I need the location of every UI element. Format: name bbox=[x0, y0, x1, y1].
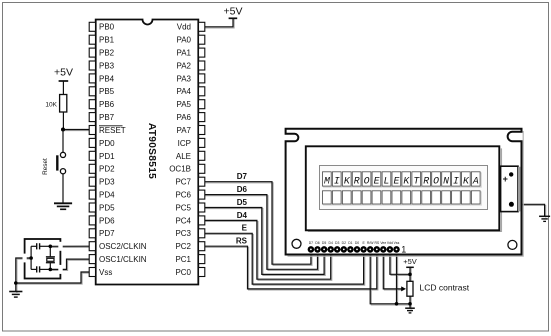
node backlight cathode dot bbox=[509, 202, 514, 207]
svg-text:Reset: Reset bbox=[42, 158, 49, 175]
svg-text:PD6: PD6 bbox=[99, 216, 115, 225]
svg-text:PC3: PC3 bbox=[175, 229, 191, 238]
pin 5 PB4 (left) bbox=[89, 74, 95, 83]
LCD cell row2 col7 bbox=[383, 192, 392, 205]
svg-text:PC6: PC6 bbox=[175, 191, 191, 200]
pin 26 PC5 (right) bbox=[199, 203, 205, 212]
pin 14 PD4 (left) bbox=[89, 190, 95, 199]
LCD cell row2 col10 bbox=[413, 192, 422, 205]
svg-text:LCD contrast: LCD contrast bbox=[420, 283, 470, 293]
capacitor C2 bbox=[31, 268, 37, 270]
LCD cell row2 col13 bbox=[443, 192, 452, 205]
svg-text:D1: D1 bbox=[348, 241, 352, 245]
svg-text:RS: RS bbox=[236, 237, 248, 246]
node shield left junction bbox=[29, 256, 33, 260]
svg-text:D3: D3 bbox=[335, 241, 339, 245]
LCD cell row1 col1 bbox=[324, 173, 333, 187]
pin 31 ICP (right) bbox=[199, 138, 205, 147]
node ground rail junction bbox=[14, 281, 18, 285]
pin 15 PD5 (left) bbox=[89, 203, 95, 212]
pin 22 PC1 (right) bbox=[199, 255, 205, 264]
pin 16 PD6 (left) bbox=[89, 216, 95, 225]
wire inner left rail bbox=[30, 246, 32, 269]
svg-text:PA2: PA2 bbox=[176, 61, 191, 70]
svg-text:+: + bbox=[503, 174, 508, 184]
pin 18 OSC2/CLKIN (left) bbox=[89, 242, 95, 251]
svg-text:OC1B: OC1B bbox=[169, 165, 191, 174]
svg-text:D0: D0 bbox=[355, 241, 359, 245]
LCD cell row1 col13 bbox=[443, 173, 452, 187]
svg-text:+5V: +5V bbox=[224, 6, 243, 18]
LCD cell row1 col10 bbox=[413, 173, 422, 187]
svg-text:R: R bbox=[423, 175, 429, 186]
LCD pin 3 Vee bbox=[380, 246, 387, 253]
svg-text:D2: D2 bbox=[342, 241, 346, 245]
svg-text:PD7: PD7 bbox=[99, 229, 115, 238]
svg-text:PB4: PB4 bbox=[99, 74, 115, 83]
pin 28 PC7 (right) bbox=[199, 177, 205, 186]
ground (backlight) bbox=[539, 216, 550, 221]
node Vss ground junction bbox=[395, 302, 399, 306]
svg-text:PB7: PB7 bbox=[99, 113, 115, 122]
LCD cell row1 col2 bbox=[334, 173, 343, 187]
svg-text:Vss: Vss bbox=[99, 268, 112, 277]
LCD cell row1 col16 bbox=[473, 173, 482, 187]
LCD cell row1 col9 bbox=[403, 173, 412, 187]
svg-text:E: E bbox=[374, 175, 380, 186]
ground (reset button) bbox=[54, 203, 72, 209]
capacitor C1 bbox=[31, 245, 37, 247]
svg-text:PD5: PD5 bbox=[99, 203, 115, 212]
LCD pin 9 D2 bbox=[341, 246, 348, 253]
svg-text:R: R bbox=[354, 175, 360, 186]
pin 39 PA0 (right) bbox=[199, 35, 205, 44]
pin 9 RESET (left) bbox=[89, 126, 95, 135]
node backlight anode dot bbox=[509, 172, 513, 176]
pin 13 PD3 (left) bbox=[89, 177, 95, 186]
svg-text:Vdd: Vdd bbox=[387, 241, 393, 245]
LCD pin 6 E bbox=[360, 246, 367, 253]
pin 7 PB6 (left) bbox=[89, 100, 95, 109]
pin 21 PC0 (right) bbox=[199, 268, 205, 277]
svg-text:A: A bbox=[472, 175, 479, 186]
svg-text:+5V: +5V bbox=[54, 67, 73, 79]
LCD cell row2 col8 bbox=[393, 192, 402, 205]
LCD cell row2 col5 bbox=[363, 192, 372, 205]
svg-text:PD2: PD2 bbox=[99, 165, 115, 174]
svg-text:L: L bbox=[384, 175, 390, 186]
svg-text:Vee: Vee bbox=[380, 241, 386, 245]
pin 29 OC1B (right) bbox=[199, 164, 205, 173]
ground (crystal) bbox=[9, 292, 22, 298]
svg-text:D5: D5 bbox=[237, 198, 248, 207]
wire node to button bbox=[62, 130, 64, 153]
svg-text:PD1: PD1 bbox=[99, 152, 115, 161]
LCD cell row1 col3 bbox=[344, 173, 353, 187]
svg-text:PC2: PC2 bbox=[175, 242, 191, 251]
LCD pin 12 D5 bbox=[321, 246, 328, 253]
mounting hole left bbox=[292, 239, 301, 248]
svg-text:D5: D5 bbox=[322, 241, 326, 245]
LCD cell row1 col4 bbox=[353, 173, 362, 187]
svg-text:E: E bbox=[242, 224, 248, 233]
pin 17 PD7 (left) bbox=[89, 229, 95, 238]
LCD pin 11 D4 bbox=[327, 246, 334, 253]
LCD bezel frame bbox=[308, 148, 502, 231]
svg-text:I: I bbox=[334, 175, 340, 186]
LCD cell row2 col15 bbox=[463, 192, 472, 205]
svg-text:AT90S8515: AT90S8515 bbox=[146, 123, 157, 179]
LCD cell row2 col11 bbox=[423, 192, 432, 205]
ground (contrast pot) bbox=[405, 308, 415, 313]
LCD pin 2 Vdd bbox=[387, 246, 394, 253]
svg-text:PC4: PC4 bbox=[175, 216, 191, 225]
op-amp U1 : AT90S8515 microcontroller body bbox=[96, 20, 199, 285]
pin 11 PD1 (left) bbox=[89, 151, 95, 160]
LCD cell row1 col7 bbox=[383, 173, 392, 187]
LCD cell row1 col14 bbox=[453, 173, 462, 187]
LCD pin 4 RS bbox=[374, 246, 381, 253]
LCD cell row2 col4 bbox=[353, 192, 362, 205]
svg-text:Vdd: Vdd bbox=[177, 23, 191, 32]
wire +5V to resistor bbox=[62, 81, 64, 95]
svg-text:PC7: PC7 bbox=[175, 178, 191, 187]
pin 40 Vdd (right) bbox=[199, 22, 205, 31]
mounting hole right bbox=[508, 240, 517, 249]
pin 37 PA2 (right) bbox=[199, 61, 205, 70]
LCD cell row1 col12 bbox=[433, 173, 442, 187]
svg-text:RS: RS bbox=[374, 241, 379, 245]
svg-text:PB5: PB5 bbox=[99, 87, 115, 96]
LCD pin 1 Vss bbox=[393, 246, 400, 253]
pin 10 PD0 (left) bbox=[89, 138, 95, 147]
svg-text:PB1: PB1 bbox=[99, 36, 115, 45]
LCD backlight connector box bbox=[501, 166, 518, 211]
pin 33 PA6 (right) bbox=[199, 113, 205, 122]
svg-text:PA3: PA3 bbox=[176, 74, 191, 83]
potentiometer P1 (LCD contrast) bbox=[407, 281, 413, 296]
svg-text:ICP: ICP bbox=[178, 139, 191, 148]
svg-text:PC0: PC0 bbox=[175, 268, 191, 277]
pin 36 PA3 (right) bbox=[199, 74, 205, 83]
svg-text:RESET: RESET bbox=[99, 126, 126, 135]
pin 34 PA5 (right) bbox=[199, 100, 205, 109]
svg-text:PB2: PB2 bbox=[99, 49, 115, 58]
LCD cell row1 col8 bbox=[393, 173, 402, 187]
svg-text:PC5: PC5 bbox=[175, 203, 191, 212]
LCD cell row2 col3 bbox=[344, 192, 353, 205]
pin 19 OSC1/CLKIN (left) bbox=[89, 255, 95, 264]
pin 8 PB7 (left) bbox=[89, 113, 95, 122]
svg-text:D7: D7 bbox=[237, 172, 248, 181]
pushbutton S1 Reset bbox=[60, 152, 65, 157]
node pot ground junction bbox=[408, 302, 412, 306]
wire resistor to node bbox=[62, 112, 64, 130]
pin 23 PC2 (right) bbox=[199, 242, 205, 251]
pin 3 PB2 (left) bbox=[89, 48, 95, 57]
pin 4 PB3 (left) bbox=[89, 61, 95, 70]
pin 35 PA4 (right) bbox=[199, 87, 205, 96]
pin 27 PC6 (right) bbox=[199, 190, 205, 199]
LCD pin 7 D0 bbox=[354, 246, 361, 253]
pin 24 PC3 (right) bbox=[199, 229, 205, 238]
svg-text:D4: D4 bbox=[237, 211, 248, 220]
pin 32 PA7 (right) bbox=[199, 126, 205, 135]
pin 2 PB1 (left) bbox=[89, 35, 95, 44]
svg-text:+5V: +5V bbox=[403, 257, 417, 266]
svg-text:ALE: ALE bbox=[176, 152, 191, 161]
resistor R1 10K bbox=[60, 95, 67, 113]
pin 12 PD2 (left) bbox=[89, 164, 95, 173]
LCD pin 5 R/W bbox=[367, 246, 374, 253]
svg-text:D6: D6 bbox=[315, 241, 319, 245]
node +5V junction bbox=[408, 273, 412, 277]
svg-text:Vss: Vss bbox=[394, 241, 400, 245]
svg-text:PA1: PA1 bbox=[176, 49, 191, 58]
svg-text:PB0: PB0 bbox=[99, 23, 115, 32]
svg-text:OSC2/CLKIN: OSC2/CLKIN bbox=[99, 242, 147, 251]
svg-text:R/W: R/W bbox=[367, 241, 374, 245]
svg-text:PA4: PA4 bbox=[176, 87, 191, 96]
svg-text:PB6: PB6 bbox=[99, 100, 115, 109]
svg-text:D7: D7 bbox=[309, 241, 313, 245]
LCD cell row2 col9 bbox=[403, 192, 412, 205]
LCD board shadow bbox=[288, 131, 524, 256]
LCD cell row1 col11 bbox=[423, 173, 432, 187]
LCD cell row2 col1 bbox=[324, 192, 333, 205]
pin 1 PB0 (left) bbox=[89, 22, 95, 31]
svg-text:E: E bbox=[393, 175, 399, 186]
shield box around crystal bbox=[25, 239, 61, 279]
svg-text:PA6: PA6 bbox=[176, 113, 191, 122]
svg-text:O: O bbox=[433, 175, 439, 186]
pin 30 ALE (right) bbox=[199, 151, 205, 160]
svg-text:PB3: PB3 bbox=[99, 61, 115, 70]
LCD cell row2 col6 bbox=[373, 192, 382, 205]
pin 38 PA1 (right) bbox=[199, 48, 205, 57]
LCD cell row2 col2 bbox=[334, 192, 343, 205]
svg-text:1: 1 bbox=[401, 245, 406, 255]
svg-text:PA7: PA7 bbox=[176, 126, 191, 135]
svg-text:OSC1/CLKIN: OSC1/CLKIN bbox=[99, 255, 147, 264]
LCD module board outline bbox=[286, 129, 522, 255]
LCD pin 13 D6 bbox=[314, 246, 321, 253]
svg-text:10K: 10K bbox=[45, 101, 57, 108]
svg-text:N: N bbox=[443, 175, 449, 186]
node OSC1 junction bbox=[49, 268, 53, 272]
svg-text:PA0: PA0 bbox=[176, 36, 191, 45]
svg-text:PA5: PA5 bbox=[176, 100, 191, 109]
svg-text:D4: D4 bbox=[329, 241, 333, 245]
LCD cell row1 col5 bbox=[363, 173, 372, 187]
LCD pin 10 D3 bbox=[334, 246, 341, 253]
svg-text:PD4: PD4 bbox=[99, 191, 115, 200]
svg-text:PD0: PD0 bbox=[99, 139, 115, 148]
pin 25 PC4 (right) bbox=[199, 216, 205, 225]
LCD cell row2 col16 bbox=[473, 192, 482, 205]
node OSC2 junction bbox=[49, 245, 53, 249]
pin 6 PB5 (left) bbox=[89, 87, 95, 96]
pin 20 Vss (left) bbox=[89, 268, 95, 277]
svg-text:D6: D6 bbox=[237, 185, 248, 194]
svg-text:PD3: PD3 bbox=[99, 178, 115, 187]
wire button to ground bbox=[62, 174, 64, 203]
LCD cell row1 col6 bbox=[373, 173, 382, 187]
LCD pin 8 D1 bbox=[347, 246, 354, 253]
crystal X1 bbox=[49, 246, 51, 256]
LCD cell row1 col15 bbox=[463, 173, 472, 187]
svg-text:I: I bbox=[453, 175, 459, 186]
LCD glass panel bbox=[320, 166, 488, 210]
svg-text:O: O bbox=[364, 175, 370, 186]
svg-text:PC1: PC1 bbox=[175, 255, 191, 264]
LCD cell row2 col12 bbox=[433, 192, 442, 205]
node RESET junction bbox=[61, 128, 65, 132]
LCD pin 14 D7 bbox=[308, 246, 315, 253]
LCD cell row2 col14 bbox=[453, 192, 462, 205]
